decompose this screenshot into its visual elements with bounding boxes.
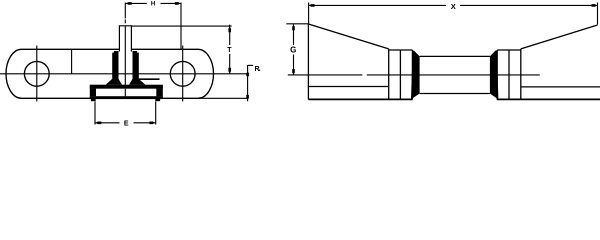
plate bottom edge extension to R dimension	[198, 97, 248, 99]
svg-text:R: R	[254, 66, 259, 73]
bushing band right (sectioned)	[490, 51, 499, 100]
dimension H line	[125, 2, 181, 4]
dimension R top tick	[248, 64, 254, 66]
outline left edge	[307, 24, 309, 99]
bottom edge left part	[308, 98, 412, 100]
right sidebar outer vertical	[508, 50, 510, 99]
dimension E extension line left	[94, 102, 96, 125]
svg-text:H: H	[151, 2, 155, 8]
dimension G arrow top	[292, 25, 295, 30]
left sidebar outer vertical	[399, 50, 401, 99]
roller top edge	[420, 55, 490, 57]
dimension H extension line right (hole center)	[180, 3, 182, 50]
svg-text:G: G	[290, 46, 296, 55]
base plate edge line right of leg	[139, 78, 160, 80]
attachment base bottom bar	[90, 96, 163, 99]
attachment base face centerline	[124, 89, 126, 97]
dimension E line	[95, 122, 156, 124]
attachment base top band	[90, 85, 163, 89]
attachment base right foot	[155, 99, 160, 101]
chain centerline right view	[288, 74, 540, 76]
bushing band left (sectioned)	[411, 51, 420, 100]
dimension T arrow bottom	[228, 68, 231, 73]
dimension T line	[229, 25, 231, 74]
right sidebar top edge	[497, 49, 521, 51]
dimension T extension line (post top)	[132, 25, 232, 27]
attachment base face	[96, 89, 156, 97]
centerline vertical right hole	[182, 46, 184, 102]
right foot top edge	[521, 86, 600, 88]
attachment base right end block	[156, 89, 163, 97]
dimension G top extension line	[286, 23, 308, 25]
left foot top edge	[308, 86, 388, 88]
dimension H extension line left (post center)	[124, 3, 126, 19]
dimension G line	[293, 24, 295, 75]
attachment centerline dash above post	[124, 20, 126, 24]
centerline vertical left hole	[36, 46, 38, 102]
left wing face vertical	[388, 49, 390, 100]
dimension X arrow right	[592, 4, 597, 7]
dimension X extension line left	[308, 3, 310, 25]
attachment upstand (post outline)	[119, 26, 131, 52]
dimension R arrow down	[246, 95, 249, 100]
label R dot	[259, 70, 260, 71]
left sidebar inner vertical	[411, 50, 413, 99]
svg-text:E: E	[124, 120, 129, 126]
dimension R arrow up	[246, 71, 249, 76]
attachment base left end block	[90, 89, 96, 97]
svg-text:T: T	[227, 47, 232, 54]
pin hole left	[24, 61, 49, 86]
left wing top diagonal	[308, 24, 388, 49]
centerline horizontal (hole axis)	[0, 73, 248, 75]
dimension X extension line right	[597, 3, 599, 25]
left sidebar top edge	[389, 49, 413, 51]
dimension E arrow right	[149, 122, 154, 125]
dimension X line	[309, 4, 598, 6]
attachment base left foot	[91, 99, 96, 101]
pin hole right	[170, 61, 195, 86]
waist contour line	[71, 49, 73, 74]
attachment left leg (sectioned)	[106, 51, 122, 85]
attachment right leg (sectioned)	[129, 51, 145, 85]
chain plate outline (stadium shape)	[6, 49, 214, 98]
dimension H arrow left	[126, 2, 131, 5]
right wing face vertical	[520, 49, 522, 100]
bottom edge right part	[497, 98, 600, 100]
dimension T arrow top	[228, 27, 231, 32]
right wing top diagonal	[521, 25, 598, 49]
attachment centerline	[124, 26, 126, 97]
dimension X arrow left	[309, 4, 314, 7]
dimension G arrow bottom	[292, 69, 295, 74]
right sidebar inner vertical	[496, 50, 498, 99]
dimension R line	[247, 65, 249, 101]
dimension H arrow right	[175, 2, 180, 5]
svg-text:X: X	[451, 2, 456, 11]
dimension E extension line right	[155, 102, 157, 125]
roller bottom edge	[420, 93, 490, 95]
dimension E arrow left	[96, 122, 101, 125]
